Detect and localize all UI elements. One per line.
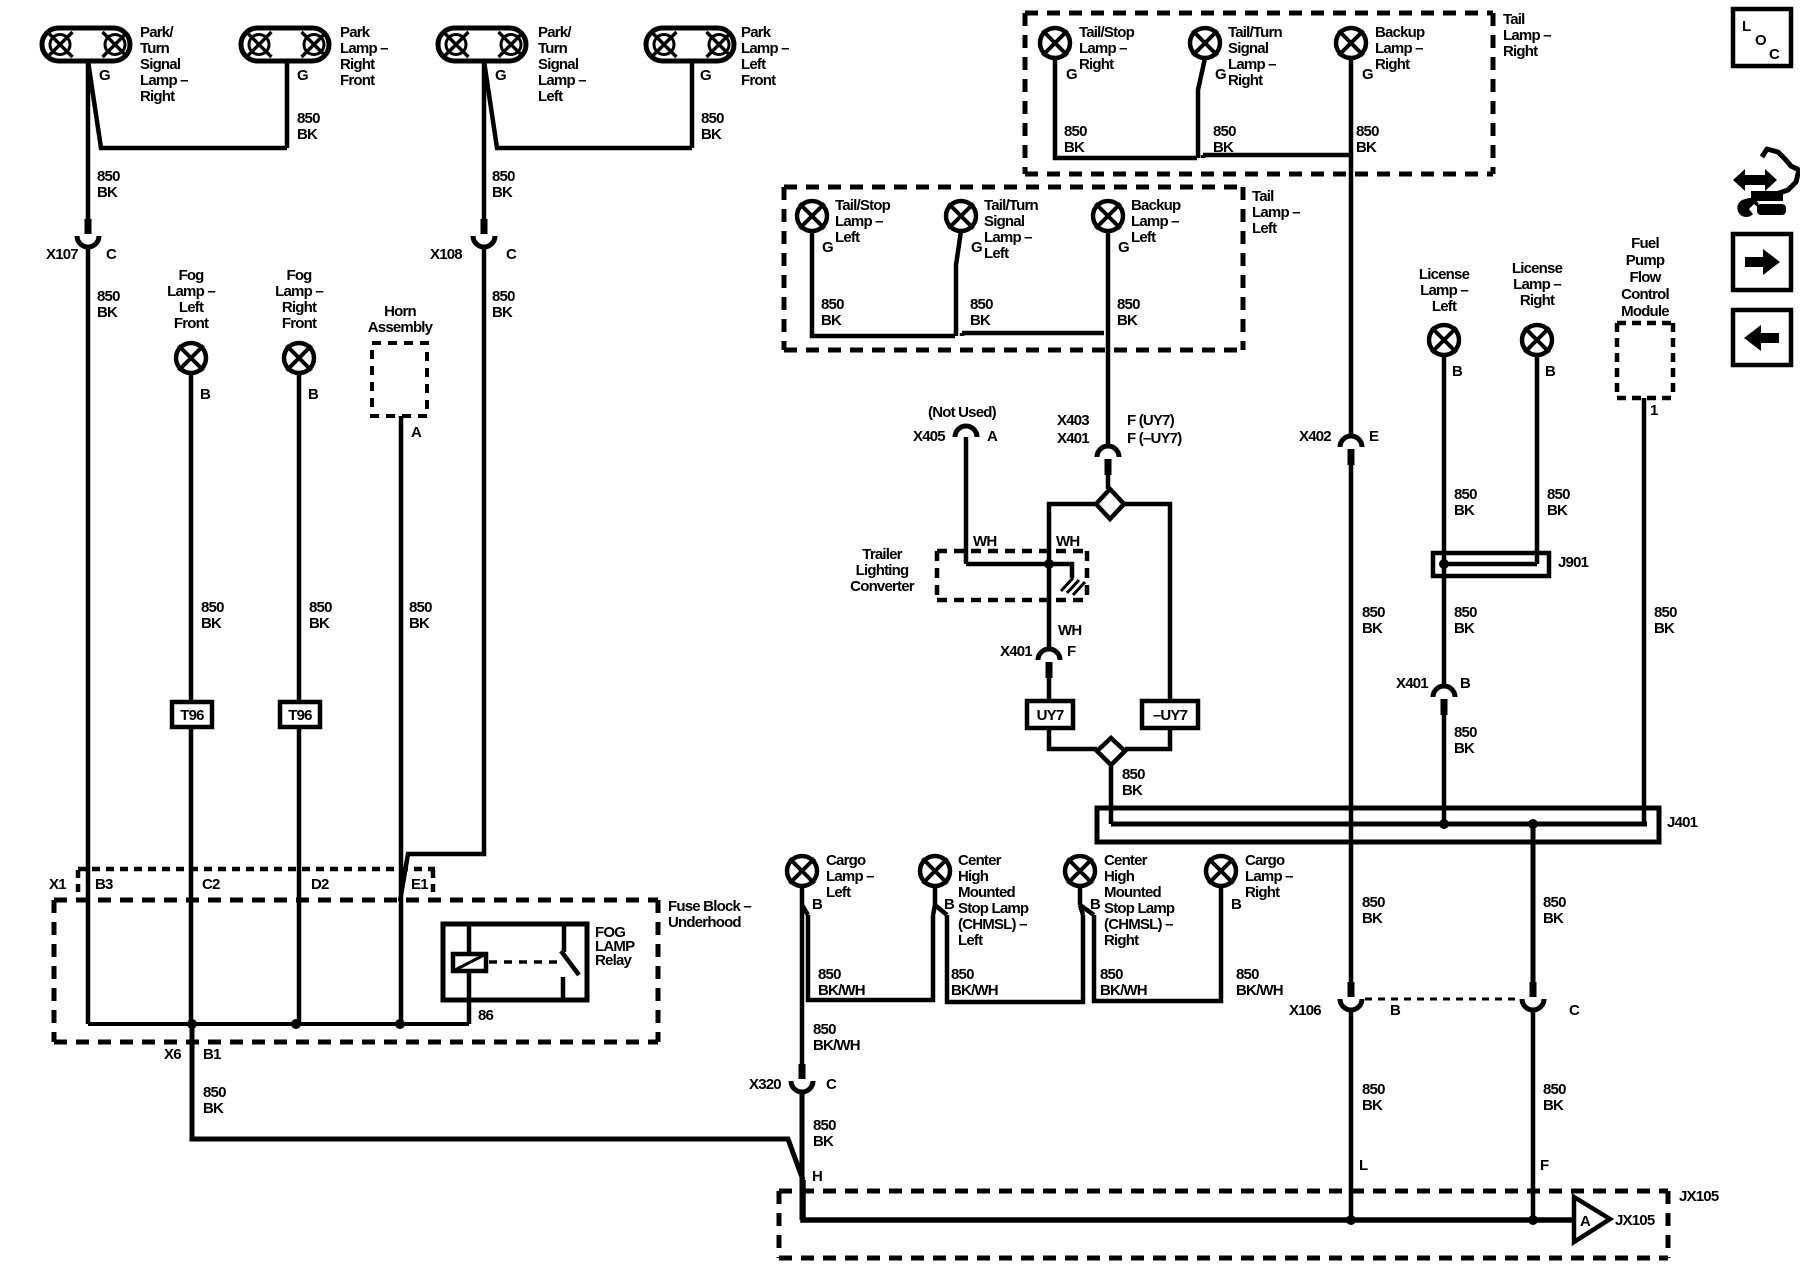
svg-text:X1: X1 — [49, 876, 66, 893]
svg-text:BK: BK — [492, 184, 513, 201]
svg-text:BK: BK — [492, 304, 513, 321]
svg-text:BK: BK — [297, 126, 318, 143]
svg-text:Left: Left — [741, 56, 766, 73]
svg-text:Trailer: Trailer — [862, 546, 902, 563]
svg-text:License: License — [1512, 260, 1563, 277]
svg-text:C: C — [826, 1076, 837, 1093]
svg-text:Right: Right — [1375, 56, 1410, 73]
svg-text:Park: Park — [340, 24, 371, 41]
svg-text:Signal: Signal — [1228, 40, 1269, 57]
svg-text:Right: Right — [1503, 43, 1538, 60]
svg-text:F (UY7): F (UY7) — [1127, 412, 1175, 429]
svg-text:Backup: Backup — [1375, 24, 1425, 41]
svg-text:(CHMSL) –: (CHMSL) – — [958, 916, 1027, 933]
svg-text:850: 850 — [297, 110, 320, 127]
svg-text:Right: Right — [140, 88, 175, 105]
svg-text:Lamp –: Lamp – — [538, 72, 586, 89]
svg-text:Lamp –: Lamp – — [1503, 27, 1551, 44]
svg-text:Pump: Pump — [1626, 252, 1665, 269]
svg-text:X108: X108 — [430, 246, 462, 263]
svg-text:BK: BK — [821, 312, 842, 329]
svg-text:850: 850 — [1654, 604, 1677, 621]
svg-text:Relay: Relay — [595, 952, 632, 969]
svg-text:Signal: Signal — [538, 56, 579, 73]
svg-text:Lamp –: Lamp – — [1252, 204, 1300, 221]
svg-text:Right: Right — [282, 299, 317, 316]
svg-text:B: B — [1452, 363, 1463, 380]
svg-text:–UY7: –UY7 — [1153, 707, 1188, 724]
svg-text:L: L — [1359, 1157, 1368, 1174]
svg-text:L: L — [1742, 18, 1751, 35]
svg-text:BK: BK — [1064, 139, 1085, 156]
svg-text:Module: Module — [1621, 303, 1669, 320]
svg-text:JX105: JX105 — [1615, 1212, 1655, 1229]
svg-text:X320: X320 — [749, 1076, 781, 1093]
svg-text:G: G — [99, 67, 110, 84]
svg-text:B: B — [812, 896, 823, 913]
svg-text:BK: BK — [203, 1100, 224, 1117]
svg-text:BK/WH: BK/WH — [951, 982, 998, 999]
svg-text:850: 850 — [1236, 966, 1259, 983]
svg-text:Left: Left — [1432, 298, 1457, 315]
svg-text:X401: X401 — [1396, 675, 1428, 692]
svg-text:BK/WH: BK/WH — [818, 982, 865, 999]
svg-text:C: C — [106, 246, 117, 263]
svg-text:X402: X402 — [1299, 428, 1331, 445]
svg-text:BK: BK — [1543, 910, 1564, 927]
svg-text:X107: X107 — [46, 246, 78, 263]
svg-text:Mounted: Mounted — [958, 884, 1016, 901]
svg-text:BK: BK — [970, 312, 991, 329]
svg-text:X403: X403 — [1057, 412, 1089, 429]
svg-text:B: B — [308, 386, 319, 403]
svg-text:Fuse Block –: Fuse Block – — [668, 898, 751, 915]
svg-text:G: G — [495, 67, 506, 84]
svg-text:850: 850 — [309, 599, 332, 616]
svg-text:Lamp –: Lamp – — [167, 283, 215, 300]
svg-text:C2: C2 — [202, 876, 220, 893]
svg-text:A: A — [411, 424, 422, 441]
svg-text:1: 1 — [1650, 402, 1658, 419]
svg-text:Tail/Stop: Tail/Stop — [835, 197, 891, 214]
svg-text:Flow: Flow — [1630, 269, 1662, 286]
svg-text:BK: BK — [813, 1133, 834, 1150]
svg-text:BK: BK — [1122, 782, 1143, 799]
svg-text:850: 850 — [1454, 604, 1477, 621]
svg-text:Mounted: Mounted — [1104, 884, 1162, 901]
svg-text:BK: BK — [201, 615, 222, 632]
svg-text:86: 86 — [478, 1007, 494, 1024]
svg-text:G: G — [700, 67, 711, 84]
svg-text:BK: BK — [1362, 910, 1383, 927]
svg-text:WH: WH — [973, 533, 996, 550]
svg-text:C: C — [506, 246, 517, 263]
svg-text:T96: T96 — [288, 707, 312, 724]
svg-text:850: 850 — [813, 1117, 836, 1134]
svg-text:B: B — [1231, 896, 1242, 913]
svg-text:Left: Left — [826, 884, 851, 901]
svg-text:850: 850 — [1362, 894, 1385, 911]
svg-text:Park: Park — [741, 24, 772, 41]
svg-text:850: 850 — [1064, 123, 1087, 140]
svg-text:Lamp –: Lamp – — [835, 213, 883, 230]
svg-text:X401: X401 — [1057, 430, 1089, 447]
svg-text:850: 850 — [1547, 486, 1570, 503]
svg-text:Lamp –: Lamp – — [984, 229, 1032, 246]
svg-text:WH: WH — [1058, 622, 1081, 639]
svg-text:B3: B3 — [95, 876, 113, 893]
svg-text:Turn: Turn — [538, 40, 568, 57]
svg-text:Front: Front — [340, 72, 375, 89]
svg-text:Cargo: Cargo — [1245, 852, 1285, 869]
svg-text:Right: Right — [1520, 292, 1555, 309]
svg-text:Left: Left — [958, 932, 983, 949]
svg-text:Center: Center — [958, 852, 1002, 869]
svg-text:850: 850 — [1454, 724, 1477, 741]
svg-text:BK: BK — [1213, 139, 1234, 156]
svg-text:Horn: Horn — [384, 303, 416, 320]
svg-text:Lamp –: Lamp – — [1245, 868, 1293, 885]
svg-text:C: C — [1569, 1002, 1580, 1019]
svg-text:BK/WH: BK/WH — [1100, 982, 1147, 999]
svg-text:G: G — [297, 67, 308, 84]
svg-text:BK: BK — [1547, 502, 1568, 519]
svg-text:Tail: Tail — [1252, 188, 1274, 205]
svg-text:850: 850 — [1356, 123, 1379, 140]
svg-text:BK: BK — [309, 615, 330, 632]
svg-text:850: 850 — [1362, 604, 1385, 621]
svg-text:Front: Front — [741, 72, 776, 89]
svg-text:X106: X106 — [1289, 1002, 1321, 1019]
svg-text:E: E — [1369, 428, 1379, 445]
svg-text:850: 850 — [201, 599, 224, 616]
svg-text:850: 850 — [203, 1084, 226, 1101]
svg-text:BK/WH: BK/WH — [813, 1037, 860, 1054]
svg-text:Left: Left — [538, 88, 563, 105]
svg-text:Fog: Fog — [286, 267, 312, 284]
svg-text:BK: BK — [1454, 620, 1475, 637]
svg-text:Center: Center — [1104, 852, 1148, 869]
svg-text:850: 850 — [970, 296, 993, 313]
svg-text:BK: BK — [701, 126, 722, 143]
svg-text:850: 850 — [97, 288, 120, 305]
svg-text:850: 850 — [1122, 766, 1145, 783]
svg-text:850: 850 — [409, 599, 432, 616]
svg-text:BK: BK — [1454, 502, 1475, 519]
svg-text:850: 850 — [813, 1021, 836, 1038]
svg-text:Left: Left — [835, 229, 860, 246]
svg-text:Underhood: Underhood — [668, 914, 741, 931]
svg-text:850: 850 — [492, 168, 515, 185]
svg-text:Left: Left — [1131, 229, 1156, 246]
svg-text:B: B — [944, 896, 955, 913]
svg-text:Assembly: Assembly — [368, 319, 434, 336]
svg-text:Lamp –: Lamp – — [826, 868, 874, 885]
svg-text:Tail/Turn: Tail/Turn — [1228, 24, 1283, 41]
svg-text:H: H — [812, 1168, 822, 1185]
svg-text:B: B — [200, 386, 211, 403]
svg-text:850: 850 — [1362, 1081, 1385, 1098]
svg-text:G: G — [822, 239, 833, 256]
svg-text:G: G — [1362, 66, 1373, 83]
svg-text:850: 850 — [818, 966, 841, 983]
svg-text:BK: BK — [1117, 312, 1138, 329]
svg-text:F: F — [1540, 1157, 1549, 1174]
svg-text:Cargo: Cargo — [826, 852, 866, 869]
svg-text:X401: X401 — [1000, 643, 1032, 660]
svg-text:BK: BK — [1543, 1097, 1564, 1114]
svg-text:BK: BK — [1654, 620, 1675, 637]
svg-text:Right: Right — [340, 56, 375, 73]
svg-text:A: A — [1580, 1213, 1591, 1230]
svg-text:BK: BK — [1356, 139, 1377, 156]
svg-text:(CHMSL) –: (CHMSL) – — [1104, 916, 1173, 933]
svg-text:F (–UY7): F (–UY7) — [1127, 430, 1182, 447]
svg-text:WH: WH — [1056, 533, 1079, 550]
svg-text:BK: BK — [97, 184, 118, 201]
svg-text:Turn: Turn — [140, 40, 170, 57]
svg-text:Park/: Park/ — [140, 24, 174, 41]
svg-text:Tail: Tail — [1503, 11, 1525, 28]
svg-text:Lamp –: Lamp – — [140, 72, 188, 89]
svg-text:G: G — [1066, 66, 1077, 83]
svg-text:B: B — [1090, 896, 1101, 913]
svg-text:X6: X6 — [164, 1046, 181, 1063]
svg-text:Lamp –: Lamp – — [1131, 213, 1179, 230]
svg-text:Fuel: Fuel — [1631, 235, 1659, 252]
svg-text:BK: BK — [1362, 1097, 1383, 1114]
svg-text:850: 850 — [97, 168, 120, 185]
svg-text:B1: B1 — [203, 1046, 221, 1063]
svg-text:Lamp –: Lamp – — [1228, 56, 1276, 73]
svg-text:Lamp –: Lamp – — [275, 283, 323, 300]
svg-text:C: C — [1769, 46, 1780, 63]
svg-text:850: 850 — [1543, 1081, 1566, 1098]
svg-text:850: 850 — [1117, 296, 1140, 313]
svg-text:Fog: Fog — [178, 267, 204, 284]
svg-text:BK/WH: BK/WH — [1236, 982, 1283, 999]
svg-text:UY7: UY7 — [1037, 707, 1064, 724]
svg-text:O: O — [1755, 32, 1767, 49]
svg-text:A: A — [987, 428, 998, 445]
svg-text:Backup: Backup — [1131, 197, 1181, 214]
svg-text:Tail/Turn: Tail/Turn — [984, 197, 1039, 214]
svg-text:D2: D2 — [311, 876, 329, 893]
svg-text:G: G — [1118, 239, 1129, 256]
svg-text:BK: BK — [1454, 740, 1475, 757]
svg-text:Signal: Signal — [984, 213, 1025, 230]
svg-text:Left: Left — [179, 299, 204, 316]
svg-text:X405: X405 — [913, 428, 945, 445]
svg-text:BK: BK — [409, 615, 430, 632]
svg-text:Stop Lamp: Stop Lamp — [1104, 900, 1175, 917]
svg-text:Signal: Signal — [140, 56, 181, 73]
svg-text:Lamp –: Lamp – — [1420, 282, 1468, 299]
svg-text:G: G — [971, 239, 982, 256]
svg-text:Left: Left — [1252, 220, 1277, 237]
svg-text:BK: BK — [97, 304, 118, 321]
svg-text:Front: Front — [174, 315, 209, 332]
svg-text:E1: E1 — [411, 876, 428, 893]
svg-text:License: License — [1419, 266, 1470, 283]
svg-text:850: 850 — [1213, 123, 1236, 140]
svg-text:J401: J401 — [1667, 814, 1698, 831]
svg-text:Lamp –: Lamp – — [1079, 40, 1127, 57]
svg-text:T96: T96 — [180, 707, 204, 724]
svg-text:B: B — [1545, 363, 1556, 380]
svg-text:Lighting: Lighting — [856, 562, 909, 579]
svg-text:Lamp –: Lamp – — [1513, 276, 1561, 293]
svg-text:F: F — [1067, 643, 1076, 660]
svg-text:B: B — [1460, 675, 1471, 692]
svg-text:JX105: JX105 — [1679, 1188, 1719, 1205]
svg-text:850: 850 — [951, 966, 974, 983]
svg-text:Front: Front — [282, 315, 317, 332]
svg-text:Right: Right — [1245, 884, 1280, 901]
svg-text:Lamp –: Lamp – — [1375, 40, 1423, 57]
svg-text:Lamp –: Lamp – — [741, 40, 789, 57]
svg-text:G: G — [1215, 66, 1226, 83]
svg-text:850: 850 — [1543, 894, 1566, 911]
svg-text:850: 850 — [492, 288, 515, 305]
svg-text:850: 850 — [1454, 486, 1477, 503]
svg-text:Lamp –: Lamp – — [340, 40, 388, 57]
svg-text:J901: J901 — [1558, 554, 1589, 571]
svg-text:Control: Control — [1621, 286, 1669, 303]
svg-text:Right: Right — [1104, 932, 1139, 949]
svg-text:Right: Right — [1228, 72, 1263, 89]
svg-text:BK: BK — [1362, 620, 1383, 637]
svg-text:Converter: Converter — [850, 578, 915, 595]
svg-text:Tail/Stop: Tail/Stop — [1079, 24, 1135, 41]
svg-text:High: High — [1104, 868, 1135, 885]
svg-text:(Not Used): (Not Used) — [928, 404, 997, 421]
svg-text:850: 850 — [1100, 966, 1123, 983]
svg-text:Park/: Park/ — [538, 24, 572, 41]
svg-text:Left: Left — [984, 245, 1009, 262]
svg-text:Right: Right — [1079, 56, 1114, 73]
svg-text:850: 850 — [701, 110, 724, 127]
svg-text:850: 850 — [821, 296, 844, 313]
svg-text:High: High — [958, 868, 989, 885]
svg-text:B: B — [1390, 1002, 1401, 1019]
svg-text:Stop Lamp: Stop Lamp — [958, 900, 1029, 917]
